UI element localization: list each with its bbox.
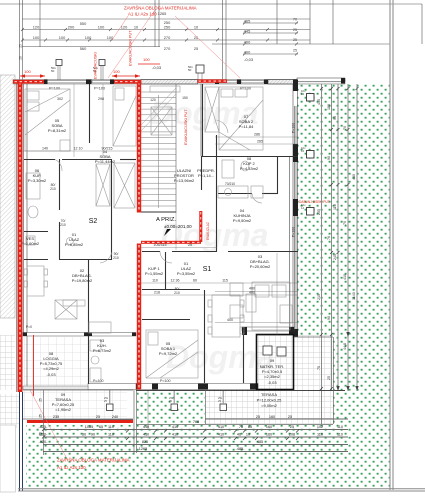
svg-text:110: 110 [108, 425, 114, 429]
svg-text:50: 50 [188, 68, 192, 72]
svg-text:235: 235 [53, 415, 59, 419]
svg-text:12 36: 12 36 [171, 279, 180, 283]
svg-text:210: 210 [50, 187, 56, 191]
svg-text:550: 550 [80, 21, 87, 26]
svg-text:10: 10 [246, 433, 250, 437]
svg-text:75: 75 [317, 366, 321, 370]
svg-text:14: 14 [301, 92, 305, 96]
svg-text:70/210: 70/210 [225, 182, 235, 186]
svg-text:25: 25 [19, 44, 23, 48]
svg-text:560: 560 [80, 46, 87, 51]
svg-text:P=8,31m2: P=8,31m2 [48, 128, 67, 133]
svg-text:46: 46 [237, 433, 241, 437]
svg-text:TERASA: TERASA [261, 392, 277, 397]
svg-text:410: 410 [172, 433, 178, 437]
svg-text:100: 100 [143, 57, 150, 62]
svg-text:465: 465 [244, 19, 251, 24]
svg-text:100: 100 [33, 35, 40, 40]
svg-text:410: 410 [218, 425, 224, 429]
svg-text:110: 110 [337, 433, 343, 437]
svg-text:65: 65 [99, 425, 103, 429]
svg-text:302: 302 [57, 97, 63, 101]
svg-text:EVAKUACIJSKI PUT: EVAKUACIJSKI PUT [129, 30, 133, 66]
svg-text:-0,03: -0,03 [244, 57, 254, 62]
svg-text:400: 400 [244, 40, 251, 45]
svg-text:25: 25 [39, 432, 43, 436]
svg-text:768: 768 [193, 420, 199, 424]
svg-text:EVAKUACIJSKI: EVAKUACIJSKI [94, 52, 98, 79]
svg-text:160: 160 [269, 415, 275, 419]
svg-text:P=20,60m2: P=20,60m2 [250, 264, 271, 269]
svg-text:250: 250 [164, 20, 171, 25]
svg-text:100: 100 [59, 35, 66, 40]
svg-text:90: 90 [327, 156, 331, 160]
svg-text:20: 20 [19, 56, 23, 60]
svg-text:65: 65 [248, 425, 252, 429]
svg-text:P=100: P=100 [160, 379, 171, 383]
svg-text:P=100: P=100 [94, 87, 105, 91]
svg-text:245: 245 [333, 254, 337, 260]
svg-text:78: 78 [239, 425, 243, 429]
svg-text:P=100: P=100 [292, 123, 296, 134]
svg-text:25: 25 [293, 28, 297, 32]
svg-text:DASUNJ OSEKI PUT: DASUNJ OSEKI PUT [299, 200, 330, 204]
svg-text:EVAK.IZLAZ: EVAK.IZLAZ [206, 222, 210, 240]
svg-text:P=4,33m2: P=4,33m2 [240, 166, 259, 171]
svg-text:400: 400 [249, 287, 255, 291]
svg-text:270: 270 [164, 35, 171, 40]
svg-text:50: 50 [51, 69, 55, 73]
svg-text:=2,35m2: =2,35m2 [264, 374, 280, 379]
svg-text:70: 70 [343, 126, 347, 130]
svg-text:ZAVRŠNA OBLOGA MATERIJALIMA: ZAVRŠNA OBLOGA MATERIJALIMA [57, 458, 130, 463]
svg-text:110: 110 [337, 425, 343, 429]
svg-text:S2: S2 [89, 218, 98, 225]
svg-text:298: 298 [98, 97, 104, 101]
svg-text:25: 25 [96, 415, 100, 419]
svg-text:ZAVRŠNA OBLOGA MATERIJALIMA: ZAVRŠNA OBLOGA MATERIJALIMA [124, 6, 197, 11]
svg-text:110: 110 [333, 204, 337, 210]
svg-text:270: 270 [164, 46, 171, 51]
svg-text:25: 25 [39, 414, 43, 418]
svg-text:P=6,73m2: P=6,73m2 [93, 348, 112, 353]
svg-text:70: 70 [343, 221, 347, 225]
svg-text:P=9,72m2: P=9,72m2 [159, 351, 178, 356]
svg-text:485: 485 [257, 440, 263, 444]
svg-text:EVAKUACIJSKI PUT: EVAKUACIJSKI PUT [184, 109, 188, 145]
svg-text:P=100: P=100 [292, 227, 296, 238]
svg-text:410: 410 [343, 274, 347, 280]
svg-text:12 10: 12 10 [74, 147, 83, 151]
svg-text:P=1,60m2: P=1,60m2 [21, 241, 40, 246]
svg-text:240: 240 [112, 415, 118, 419]
svg-text:102: 102 [317, 425, 323, 429]
svg-text:P=19,80m2: P=19,80m2 [72, 278, 93, 283]
svg-text:P=1,55m2: P=1,55m2 [145, 271, 164, 276]
svg-text:60: 60 [193, 279, 197, 283]
svg-text:-485-: -485- [236, 447, 246, 451]
svg-text:P=11,44m2: P=11,44m2 [95, 159, 116, 164]
svg-text:200: 200 [68, 25, 75, 30]
svg-text:445: 445 [244, 29, 251, 34]
svg-text:410: 410 [143, 433, 149, 437]
svg-text:P=3,30m2: P=3,30m2 [28, 178, 47, 183]
svg-text:410: 410 [172, 425, 178, 429]
svg-text:90: 90 [333, 116, 337, 120]
svg-text:110: 110 [108, 433, 114, 437]
svg-text:P=0: P=0 [26, 325, 32, 329]
svg-text:100: 100 [98, 25, 105, 30]
svg-text:150: 150 [182, 96, 188, 100]
svg-text:120: 120 [33, 25, 40, 30]
svg-text:100: 100 [107, 35, 114, 40]
svg-text:=1,90m2: =1,90m2 [55, 407, 71, 412]
svg-text:14: 14 [301, 149, 305, 153]
svg-text:415: 415 [317, 99, 321, 105]
svg-text:160: 160 [266, 425, 272, 429]
svg-text:210: 210 [174, 291, 180, 295]
svg-text:140: 140 [42, 147, 48, 151]
svg-text:1265: 1265 [158, 11, 167, 16]
svg-text:P=12,00x0,25: P=12,00x0,25 [257, 398, 283, 403]
svg-text:25: 25 [288, 415, 292, 419]
svg-text:25: 25 [293, 49, 297, 53]
svg-text:160: 160 [266, 433, 272, 437]
svg-text:90: 90 [91, 433, 95, 437]
svg-text:30: 30 [82, 433, 86, 437]
svg-text:1140: 1140 [352, 292, 356, 300]
svg-text:P=100: P=100 [93, 379, 104, 383]
svg-text:=9,00m2: =9,00m2 [261, 403, 277, 408]
svg-text:115: 115 [222, 279, 228, 283]
svg-text:A1 ILI A2s 1d0: A1 ILI A2s 1d0 [57, 465, 86, 470]
svg-text:44,8: 44,8 [343, 343, 347, 350]
svg-text:90: 90 [327, 316, 331, 320]
svg-text:±0,00=201,00: ±0,00=201,00 [164, 224, 192, 229]
svg-text:-0,03: -0,03 [152, 65, 162, 70]
svg-text:110: 110 [152, 279, 158, 283]
svg-text:400: 400 [244, 50, 251, 55]
svg-text:=4,29m2: =4,29m2 [43, 366, 59, 371]
svg-text:286: 286 [254, 133, 260, 137]
svg-text:218: 218 [154, 291, 160, 295]
svg-text:P=13,96m2: P=13,96m2 [174, 178, 195, 183]
svg-text:A PRIZ.: A PRIZ. [156, 217, 176, 223]
svg-text:215: 215 [317, 294, 321, 300]
svg-text:P=3,55m2: P=3,55m2 [177, 271, 196, 276]
svg-text:120: 120 [150, 98, 156, 102]
svg-text:09: 09 [270, 358, 275, 363]
svg-text:410: 410 [143, 425, 149, 429]
svg-text:70: 70 [293, 18, 297, 22]
svg-text:110: 110 [317, 433, 323, 437]
svg-text:P=6,85m2: P=6,85m2 [65, 242, 84, 247]
svg-text:430: 430 [352, 174, 356, 180]
svg-text:A1 ILI A2s 1d0: A1 ILI A2s 1d0 [128, 12, 157, 17]
svg-text:210: 210 [113, 256, 119, 260]
svg-text:25: 25 [39, 398, 43, 402]
svg-text:400: 400 [249, 291, 255, 295]
svg-text:25: 25 [194, 46, 198, 51]
svg-text:208: 208 [289, 433, 295, 437]
svg-text:S1: S1 [203, 266, 212, 273]
svg-text:25: 25 [327, 376, 331, 380]
svg-text:1085: 1085 [85, 425, 93, 429]
svg-text:410: 410 [218, 433, 224, 437]
svg-text:P=1,14...: P=1,14... [198, 173, 214, 178]
svg-text:100: 100 [24, 69, 31, 74]
svg-text:25: 25 [293, 38, 297, 42]
svg-text:P=11,84: P=11,84 [239, 124, 254, 129]
svg-text:265: 265 [257, 140, 263, 144]
svg-text:250: 250 [164, 25, 171, 30]
svg-text:100: 100 [113, 69, 120, 74]
svg-text:25: 25 [256, 415, 260, 419]
svg-text:25: 25 [290, 425, 294, 429]
svg-text:76: 76 [327, 236, 331, 240]
svg-text:-0,03: -0,03 [46, 372, 56, 377]
svg-text:210: 210 [60, 223, 66, 227]
svg-text:825: 825 [142, 440, 148, 444]
svg-text:100: 100 [85, 35, 92, 40]
svg-text:14: 14 [301, 206, 305, 210]
svg-text:255: 255 [317, 209, 321, 215]
svg-text:1265: 1265 [139, 447, 147, 451]
svg-text:180: 180 [327, 104, 331, 110]
svg-text:90/215: 90/215 [102, 147, 113, 151]
svg-text:P=9,50m2: P=9,50m2 [233, 218, 252, 223]
svg-text:400: 400 [227, 318, 233, 322]
svg-text:-0,03: -0,03 [267, 380, 277, 385]
svg-text:P=100: P=100 [49, 87, 60, 91]
